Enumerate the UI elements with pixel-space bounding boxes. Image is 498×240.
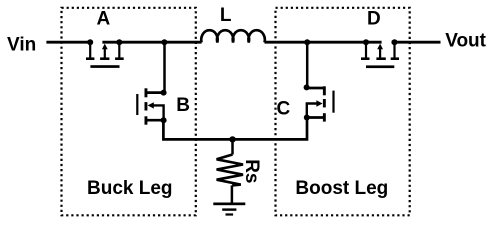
- wire: D to Vout: [392, 41, 441, 44]
- node: boost switch-node junction dot: [304, 39, 310, 45]
- transistor B (low-side buck FET, vertical): [136, 88, 166, 124]
- node: buck switch-node junction dot: [161, 39, 167, 45]
- wire: Vin to transistor A drain: [46, 41, 92, 44]
- node: current-sense junction dot: [229, 136, 235, 142]
- wire: buck node down to B drain: [163, 42, 166, 92]
- svg-text:Rs: Rs: [241, 159, 262, 183]
- resistor Rs: [217, 139, 243, 203]
- svg-text:A: A: [97, 9, 111, 30]
- transistor A (series buck FET, horizontal): [86, 39, 124, 68]
- transistor C (low-side boost FET, vertical, mirrored): [304, 84, 335, 121]
- dotted box: Boost Leg: [276, 8, 410, 216]
- wire: A source to inductor: [119, 41, 201, 44]
- wire: boost node down to C drain: [306, 42, 309, 87]
- svg-text:L: L: [220, 5, 232, 26]
- svg-text:C: C: [277, 99, 291, 120]
- svg-text:D: D: [367, 9, 381, 30]
- svg-text:Boost Leg: Boost Leg: [295, 178, 388, 199]
- svg-text:Buck Leg: Buck Leg: [87, 178, 173, 199]
- svg-text:B: B: [176, 95, 190, 116]
- svg-text:Vout: Vout: [445, 31, 486, 52]
- wire: C source down to bottom rail: [233, 118, 308, 140]
- wire: B source down to bottom rail: [163, 120, 232, 139]
- dotted box: Buck Leg: [62, 8, 196, 216]
- wire: inductor to transistor D: [265, 41, 382, 44]
- ground: [213, 203, 245, 216]
- inductor L: [201, 30, 265, 42]
- transistor D (series boost FET, horizontal, mirrored): [361, 39, 399, 68]
- svg-text:Vin: Vin: [7, 35, 36, 56]
